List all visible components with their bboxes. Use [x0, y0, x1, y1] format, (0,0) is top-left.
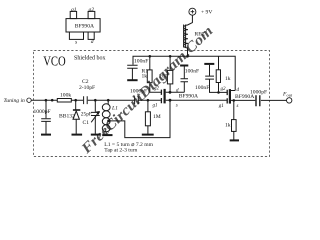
- svg-text:1000pF: 1000pF: [34, 109, 51, 115]
- svg-text:g2: g2: [154, 87, 160, 92]
- svg-text:100k: 100k: [60, 92, 71, 98]
- svg-text:g1: g1: [71, 7, 77, 13]
- svg-text:g2: g2: [89, 7, 95, 13]
- svg-text:d: d: [91, 39, 94, 45]
- svg-text:2-10pF: 2-10pF: [79, 85, 95, 91]
- svg-text:Tuning in: Tuning in: [4, 98, 25, 104]
- svg-text:s: s: [176, 103, 178, 108]
- svg-text:out: out: [287, 93, 293, 98]
- svg-text:+ 9V: + 9V: [201, 10, 212, 16]
- svg-text:L1: L1: [111, 105, 118, 111]
- svg-text:1M: 1M: [153, 114, 161, 120]
- svg-text:1000pF: 1000pF: [130, 89, 147, 95]
- svg-text:1k: 1k: [225, 122, 231, 128]
- svg-text:100nF: 100nF: [134, 59, 148, 65]
- svg-text:g1: g1: [153, 103, 158, 108]
- svg-text:1k: 1k: [142, 73, 148, 79]
- svg-text:RFC: RFC: [195, 31, 206, 37]
- svg-text:g1: g1: [219, 104, 224, 109]
- svg-text:200: 200: [159, 73, 168, 79]
- svg-text:C1: C1: [83, 120, 90, 126]
- svg-text:Tap at 2-3 turn: Tap at 2-3 turn: [104, 147, 137, 153]
- svg-text:1k: 1k: [225, 76, 231, 82]
- svg-text:25pF: 25pF: [81, 112, 92, 118]
- svg-text:1000pF: 1000pF: [250, 89, 267, 95]
- svg-text:s: s: [75, 40, 77, 46]
- svg-text:s: s: [237, 104, 239, 109]
- svg-text:100nF: 100nF: [185, 69, 199, 75]
- svg-text:g2: g2: [221, 87, 227, 92]
- svg-text:BF990A: BF990A: [75, 24, 94, 30]
- svg-text:100nF: 100nF: [195, 85, 209, 91]
- svg-text:VCO: VCO: [43, 53, 66, 68]
- svg-text:Shielded box: Shielded box: [74, 55, 106, 61]
- svg-text:BB132: BB132: [59, 114, 75, 120]
- svg-text:BF990A: BF990A: [179, 94, 198, 100]
